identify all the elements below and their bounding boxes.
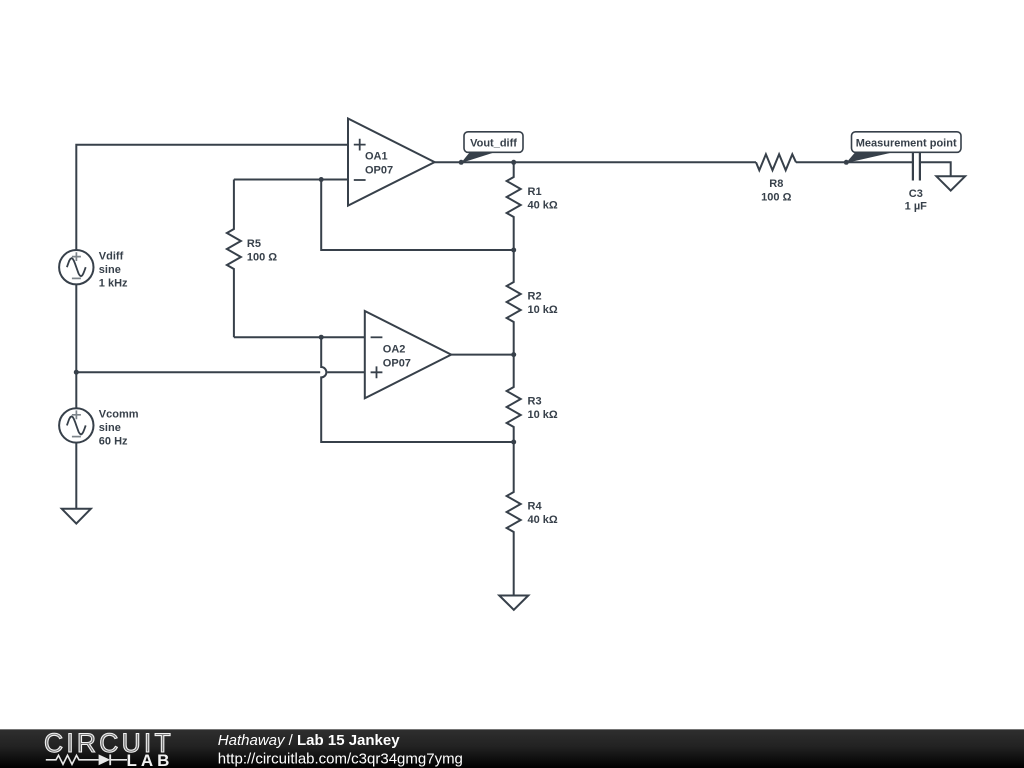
wire node B down to R1-R2 junction: [321, 180, 514, 251]
svg-text:OP07: OP07: [383, 357, 411, 369]
svg-text:1 kHz: 1 kHz: [99, 278, 128, 290]
node dot A (sources junction): [74, 370, 79, 375]
wire R5 bottom to node C: [234, 336, 365, 338]
svg-text:60 Hz: 60 Hz: [99, 436, 128, 448]
ground below R4: [499, 596, 528, 610]
wire OA2 output: [451, 354, 514, 356]
wire node A to OA2 + input (with hop gap): [76, 371, 320, 373]
svg-text:Vout_diff: Vout_diff: [470, 137, 517, 149]
resistor R1: [507, 162, 521, 250]
svg-text:R1: R1: [528, 186, 542, 198]
Vdiff sine wave: [67, 258, 86, 276]
resistor R8: [756, 154, 796, 170]
OA1 plus mark: [354, 139, 366, 151]
Vdiff plus mark: [72, 252, 81, 261]
svg-text:sine: sine: [99, 422, 121, 434]
svg-text:R2: R2: [528, 291, 542, 303]
svg-text:10 kΩ: 10 kΩ: [528, 304, 558, 316]
ground right of C3: [936, 176, 965, 190]
Vdiff minus mark: [72, 277, 81, 279]
op-amp OA1: [348, 119, 435, 206]
logo resistor-diode symbol: [46, 755, 127, 764]
svg-text:100 Ω: 100 Ω: [247, 252, 277, 264]
svg-text:100 Ω: 100 Ω: [761, 191, 791, 203]
wire R8 to C3 left plate: [796, 161, 913, 163]
Vcomm minus mark: [72, 436, 81, 438]
svg-text:40 kΩ: 40 kΩ: [528, 514, 558, 526]
Vcomm plus mark: [72, 410, 81, 419]
op-amp OA2: [365, 311, 451, 398]
svg-text:C3: C3: [909, 188, 923, 200]
Vcomm sine wave: [67, 416, 86, 434]
node dot R1-R2: [511, 248, 516, 253]
resistor R3: [507, 355, 521, 442]
wire hop resume to OA2 + input: [327, 371, 365, 373]
OA2 plus mark: [371, 366, 383, 378]
wire node A to Vcomm top: [75, 372, 77, 408]
OA2 minus mark: [371, 336, 383, 338]
svg-text:R4: R4: [528, 501, 543, 513]
svg-text:1 µF: 1 µF: [905, 200, 928, 212]
flag Measurement point: [846, 132, 961, 163]
wire R5 top to node B: [234, 179, 348, 181]
voltage source Vdiff: [59, 250, 93, 284]
node dot rail top: [511, 160, 516, 165]
svg-text:10 kΩ: 10 kΩ: [528, 409, 558, 421]
svg-text:OA1: OA1: [365, 151, 388, 163]
resistor R4: [507, 442, 521, 596]
svg-text:LAB: LAB: [127, 751, 174, 768]
svg-text:Hathaway / Lab 15 Jankey: Hathaway / Lab 15 Jankey: [218, 732, 400, 749]
footer bar: [0, 728, 1024, 768]
svg-text:R3: R3: [528, 396, 542, 408]
svg-text:R8: R8: [769, 178, 783, 190]
flag Vout_diff: [461, 132, 523, 163]
wire C3 right plate to ground: [920, 162, 951, 176]
wire Vdiff top to OA1 + input: [76, 145, 348, 250]
svg-text:40 kΩ: 40 kΩ: [528, 199, 558, 211]
resistor R5: [227, 180, 241, 338]
capacitor C3: [913, 146, 920, 181]
wire node C down to R3-R4 junction with hop over Vcomm wire: [321, 337, 514, 442]
svg-text:Measurement point: Measurement point: [856, 137, 957, 149]
node dot C (OA2 inverting): [319, 335, 324, 340]
wire Vdiff bottom to node A: [75, 284, 77, 372]
svg-text:sine: sine: [99, 264, 121, 276]
svg-text:OP07: OP07: [365, 164, 393, 176]
voltage source Vcomm: [59, 408, 93, 442]
node dot B (OA1 inverting): [319, 177, 324, 182]
svg-text:Vcomm: Vcomm: [99, 409, 139, 421]
node dot R2-R3: [511, 352, 516, 357]
svg-text:R5: R5: [247, 238, 261, 250]
ground below Vcomm: [62, 509, 91, 524]
wire OA1 output: [435, 161, 756, 163]
node dot R3-R4: [511, 440, 516, 445]
svg-text:http://circuitlab.com/c3qr34gm: http://circuitlab.com/c3qr34gmg7ymg: [218, 751, 463, 768]
resistor R2: [507, 250, 521, 355]
node dot measurement tap: [844, 160, 849, 165]
logo diode: [99, 754, 111, 765]
svg-text:OA2: OA2: [383, 344, 406, 356]
OA1 minus mark: [354, 179, 366, 181]
wire Vcomm bottom to ground: [75, 443, 77, 509]
svg-text:Vdiff: Vdiff: [99, 251, 124, 263]
node dot Vout_diff tap: [459, 160, 464, 165]
